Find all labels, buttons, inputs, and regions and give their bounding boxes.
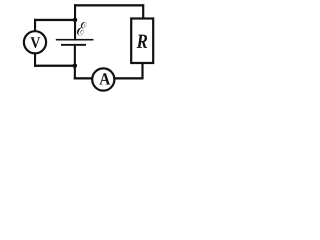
battery G1 bottom plate (short thick, negative) bbox=[61, 44, 86, 46]
wire voltmeter bottom horizontal bbox=[34, 65, 75, 67]
resistor R1 box bbox=[131, 19, 153, 64]
wire battery bottom lead vertical bbox=[74, 46, 76, 80]
ammeter A1 circle bbox=[92, 68, 114, 90]
voltmeter V1 circle bbox=[24, 31, 46, 53]
ammeter label A bbox=[99, 73, 110, 84]
wire bottom left horizontal (to ammeter) bbox=[74, 77, 92, 79]
wire bottom right horizontal (ammeter to resistor) bbox=[114, 77, 142, 79]
node junction dot top (battery+, voltmeter, resistor) bbox=[73, 18, 78, 23]
node junction dot bottom (battery-, voltmeter, ammeter) bbox=[73, 64, 78, 69]
voltmeter label V bbox=[30, 37, 40, 48]
wire resistor top lead vertical bbox=[142, 4, 144, 18]
battery EMF label script E bbox=[77, 22, 86, 35]
wire voltmeter bottom stub vertical bbox=[34, 53, 36, 67]
wire battery top lead vertical bbox=[74, 4, 76, 39]
wire voltmeter top stub vertical bbox=[34, 19, 36, 31]
wire voltmeter top horizontal bbox=[34, 19, 75, 21]
wire top horizontal (battery+ to resistor top) bbox=[74, 4, 144, 6]
resistor label R bbox=[137, 35, 148, 48]
wire resistor bottom lead vertical bbox=[141, 63, 143, 79]
battery G1 top plate (long thin, positive) bbox=[56, 39, 94, 41]
